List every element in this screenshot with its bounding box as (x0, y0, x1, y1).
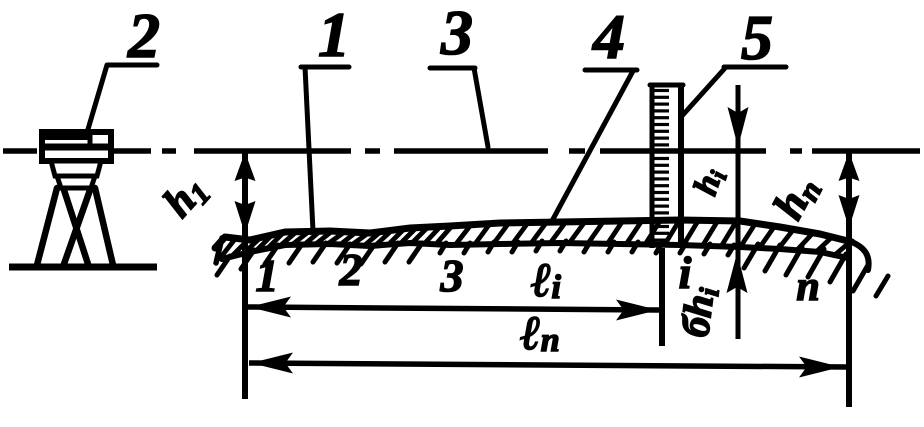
dimension hn: down arrow (839, 195, 860, 228)
svg-text:2: 2 (339, 244, 363, 295)
dimension hi: vertical line through surface at station i (736, 85, 741, 339)
label 4 (leader to surface) (552, 1, 637, 221)
svg-text:4: 4 (592, 1, 625, 72)
ground hatching below surface (217, 241, 888, 296)
surface left end cap (216, 238, 222, 263)
dimension ln: line with arrows (249, 353, 846, 378)
dimension hn: up arrow (839, 152, 860, 181)
label 2 (leader to instrument) (86, 0, 160, 136)
svg-text:h1: h1 (154, 166, 217, 228)
svg-text:1: 1 (318, 0, 350, 70)
label 3 (leader to sight line) (430, 0, 488, 147)
hatching inside surface band (221, 221, 850, 257)
svg-text:3: 3 (440, 250, 464, 301)
svg-text:hn: hn (763, 167, 829, 228)
label 1 (leader to surface) (301, 0, 350, 231)
svg-text:2: 2 (127, 0, 160, 71)
level instrument on tripod (item 2) (37, 132, 113, 265)
ground line under tripod (9, 264, 157, 271)
dimension hi: down arrow at sight line (728, 107, 749, 147)
svg-text:ℓn: ℓn (520, 307, 559, 360)
ground surface profile: bottom line (222, 243, 848, 259)
surface right end hook (852, 242, 869, 270)
dimension li: extension line under rod (659, 248, 665, 346)
dimension hi: up arrow at surface from below (727, 253, 748, 293)
svg-text:i: i (679, 247, 692, 298)
svg-text:5: 5 (741, 2, 773, 73)
svg-text:1: 1 (256, 250, 279, 301)
ground surface profile (item 4): top line (215, 220, 852, 248)
dimension h1: up arrow (235, 152, 256, 181)
dimension h1: extension line at first station (242, 151, 248, 399)
wire: horizontal sight line (dash-dot axis) (3, 148, 920, 154)
label 5 (leader to rod) (681, 2, 786, 117)
dimension h1: down arrow (235, 201, 256, 234)
leveling rod / staff (item 5) (650, 84, 683, 248)
svg-text:hi: hi (687, 164, 733, 201)
svg-text:3: 3 (440, 0, 473, 68)
dimension li: line with arrows (247, 297, 659, 321)
dimension hn: extension line at last station (846, 151, 852, 407)
svg-text:ℓi: ℓi (531, 254, 562, 307)
svg-text:n: n (796, 264, 819, 310)
